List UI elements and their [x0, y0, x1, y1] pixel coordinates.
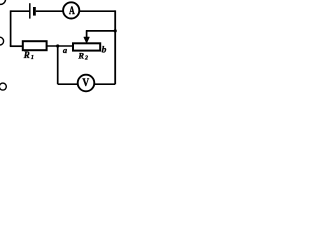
- wire battery to ammeter: [36, 10, 63, 12]
- wire right rail: [114, 10, 116, 84]
- svg-text:R: R: [23, 50, 30, 60]
- svg-text:V: V: [82, 76, 89, 89]
- wire ammeter to top-right corner: [79, 10, 115, 12]
- wire wiper vertical: [86, 30, 88, 39]
- cropped circle fragment mid-left: [0, 37, 4, 45]
- resistor R1 box: [23, 41, 47, 50]
- wire left rail: [10, 10, 12, 46]
- wire voltmeter branch vertical: [57, 46, 59, 84]
- svg-text:1: 1: [31, 55, 34, 61]
- svg-text:A: A: [69, 4, 75, 17]
- wire corner to R1 left: [10, 45, 23, 47]
- wiper arrow: [84, 37, 89, 43]
- battery B1 long plate: [29, 3, 31, 18]
- wire R1 to rheostat a-end: [47, 45, 73, 47]
- cropped circle fragment bottom-left: [0, 83, 6, 90]
- wire voltmeter to bottom-right corner: [94, 83, 115, 85]
- junction dot R1/voltmeter branch: [56, 44, 59, 47]
- svg-text:R: R: [77, 50, 84, 60]
- wire top-left (battery to left corner): [11, 10, 30, 12]
- voltmeter V circle: [78, 75, 95, 92]
- svg-text:b: b: [102, 46, 107, 56]
- svg-text:2: 2: [84, 55, 88, 61]
- cropped circle fragment top-left: [0, 0, 6, 4]
- junction dot wiper/right rail: [114, 29, 117, 32]
- wire wiper horizontal to right rail: [86, 30, 115, 32]
- ammeter A circle: [63, 2, 79, 18]
- wire bottom left to voltmeter: [58, 83, 78, 85]
- rheostat R2 box: [73, 43, 100, 50]
- battery B1 short thick plate: [33, 7, 36, 16]
